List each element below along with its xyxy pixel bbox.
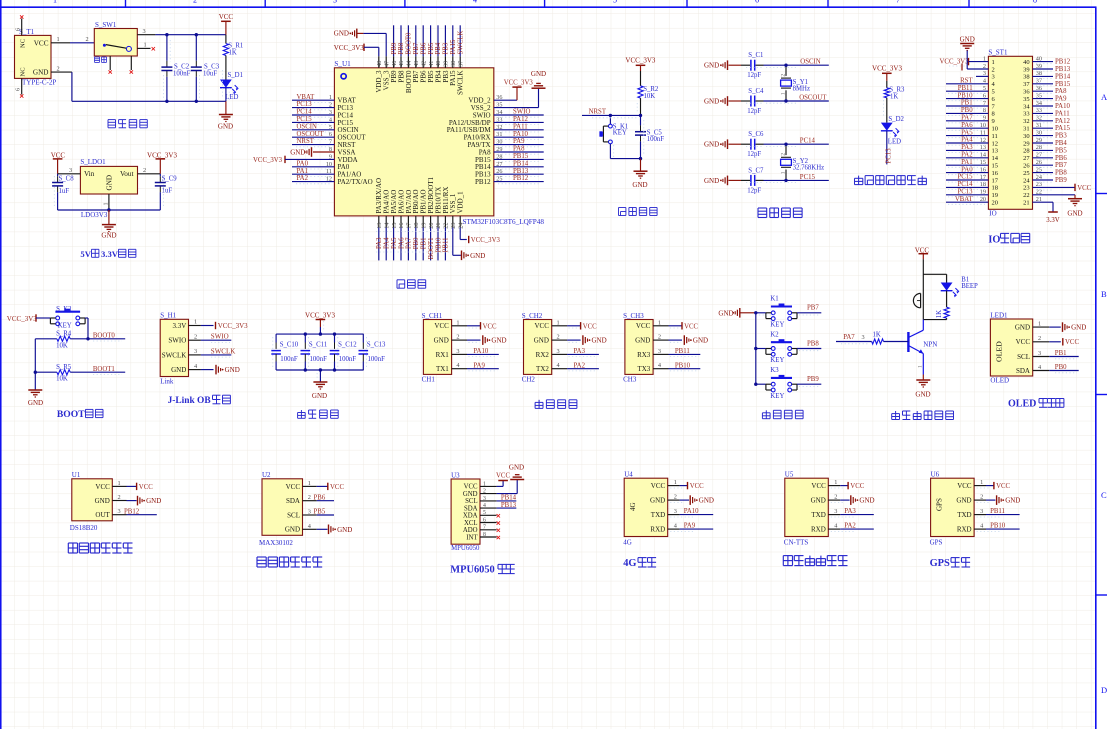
- svg-text:S_C6: S_C6: [748, 131, 764, 138]
- svg-text:2: 2: [1038, 335, 1041, 342]
- svg-text:K2: K2: [770, 331, 779, 338]
- svg-text:S_CH2: S_CH2: [522, 312, 543, 320]
- svg-text:1: 1: [194, 319, 197, 326]
- svg-text:S_C8: S_C8: [59, 175, 75, 182]
- svg-text:PA9: PA9: [513, 138, 525, 145]
- svg-text:12pF: 12pF: [747, 151, 761, 158]
- svg-text:46: 46: [391, 61, 398, 67]
- svg-text:8: 8: [1033, 0, 1037, 4]
- svg-text:VCC_3V3: VCC_3V3: [253, 157, 283, 164]
- svg-text:ADO: ADO: [463, 527, 478, 534]
- svg-text:1: 1: [456, 319, 459, 326]
- svg-text:GND: GND: [95, 497, 110, 505]
- svg-text:GND: GND: [704, 177, 719, 185]
- svg-text:2: 2: [781, 74, 787, 77]
- svg-text:1: 1: [834, 479, 837, 486]
- svg-text:5: 5: [483, 510, 486, 516]
- svg-text:26: 26: [1023, 163, 1030, 170]
- svg-text:2: 2: [557, 334, 560, 341]
- svg-text:6: 6: [755, 0, 759, 4]
- svg-text:2: 2: [834, 494, 837, 501]
- svg-text:S_CH1: S_CH1: [422, 312, 443, 320]
- svg-text:S_C2: S_C2: [174, 64, 190, 71]
- svg-text:PA11: PA11: [513, 123, 528, 130]
- svg-text:3: 3: [992, 74, 995, 81]
- svg-text:22: 22: [1023, 192, 1030, 199]
- svg-text:GND: GND: [146, 497, 161, 505]
- svg-text:11: 11: [992, 133, 998, 140]
- svg-text:TYPE-C-2P: TYPE-C-2P: [22, 78, 56, 86]
- svg-text:CN-TTS: CN-TTS: [784, 539, 809, 547]
- svg-text:S_CH3: S_CH3: [623, 312, 644, 320]
- svg-text:3: 3: [1038, 350, 1041, 357]
- svg-text:10K: 10K: [56, 342, 68, 349]
- svg-text:U3: U3: [451, 471, 460, 479]
- svg-text:2: 2: [992, 66, 995, 73]
- svg-text:39: 39: [443, 61, 450, 67]
- svg-text:A: A: [1101, 92, 1107, 102]
- svg-text:IO: IO: [988, 234, 1000, 245]
- svg-text:PC13: PC13: [297, 101, 313, 108]
- svg-text:PB1: PB1: [1055, 350, 1067, 357]
- svg-text:Vout: Vout: [120, 170, 133, 178]
- svg-text:3: 3: [69, 167, 72, 174]
- svg-text:13: 13: [992, 148, 999, 155]
- svg-text:PA7: PA7: [406, 237, 413, 249]
- svg-text:1: 1: [781, 92, 787, 95]
- svg-text:GND: GND: [33, 69, 49, 77]
- svg-text:PB4: PB4: [435, 42, 442, 54]
- svg-text:GND: GND: [225, 366, 240, 374]
- svg-text:PB8: PB8: [398, 42, 405, 54]
- svg-text:1: 1: [658, 319, 661, 326]
- svg-text:22: 22: [443, 223, 450, 229]
- svg-text:PA4: PA4: [384, 237, 391, 249]
- svg-text:PB12: PB12: [475, 178, 491, 186]
- svg-text:VBAT: VBAT: [297, 94, 316, 101]
- svg-text:MPU6050: MPU6050: [451, 545, 480, 552]
- svg-text:CH1: CH1: [422, 375, 436, 383]
- svg-text:VCC_3V3: VCC_3V3: [471, 237, 501, 244]
- svg-text:LED1: LED1: [990, 312, 1008, 320]
- svg-text:GND: GND: [650, 497, 665, 505]
- svg-text:100nF: 100nF: [310, 356, 328, 363]
- svg-text:S_R5: S_R5: [56, 364, 72, 371]
- svg-text:PA10: PA10: [513, 131, 528, 138]
- svg-text:32: 32: [1023, 118, 1030, 125]
- svg-text:TX2: TX2: [536, 365, 549, 373]
- svg-text:6: 6: [483, 517, 486, 523]
- svg-text:CH2: CH2: [522, 375, 536, 383]
- svg-text:1: 1: [980, 479, 983, 486]
- svg-text:PA8: PA8: [513, 146, 525, 153]
- svg-text:VCC_3V3: VCC_3V3: [625, 57, 655, 65]
- svg-text:6: 6: [15, 28, 21, 31]
- svg-text:GND: GND: [434, 337, 449, 345]
- svg-text:RX2: RX2: [536, 351, 550, 359]
- svg-text:3: 3: [194, 348, 197, 355]
- svg-text:IO: IO: [989, 210, 996, 218]
- svg-text:1: 1: [918, 365, 924, 368]
- svg-text:SWCLK: SWCLK: [457, 71, 465, 96]
- svg-text:37: 37: [1023, 81, 1030, 88]
- svg-text:PB0: PB0: [1055, 364, 1067, 371]
- svg-text:TX3: TX3: [637, 365, 650, 373]
- svg-text:PA9: PA9: [1055, 96, 1067, 103]
- svg-text:PB6: PB6: [314, 494, 326, 501]
- svg-text:S_C10: S_C10: [280, 341, 299, 348]
- svg-text:1K: 1K: [873, 332, 881, 339]
- svg-text:BOOT: BOOT: [57, 409, 85, 420]
- svg-text:S_K2: S_K2: [56, 306, 72, 313]
- svg-text:SWCLK: SWCLK: [457, 31, 464, 55]
- svg-text:GND: GND: [704, 62, 719, 70]
- svg-text:PB10: PB10: [990, 523, 1006, 530]
- svg-text:PB6: PB6: [420, 42, 427, 54]
- svg-text:NRST: NRST: [589, 109, 607, 116]
- svg-text:40: 40: [435, 61, 442, 67]
- svg-text:PB15: PB15: [513, 153, 529, 160]
- svg-text:VCC: VCC: [95, 483, 110, 491]
- svg-text:SWIO: SWIO: [513, 109, 530, 116]
- svg-text:19: 19: [992, 192, 999, 199]
- svg-text:RST: RST: [960, 78, 973, 85]
- svg-text:PB7: PB7: [807, 305, 819, 312]
- svg-text:2: 2: [456, 334, 459, 341]
- svg-text:PB11: PB11: [443, 238, 450, 253]
- svg-text:KEY: KEY: [770, 393, 784, 400]
- svg-text:2: 2: [86, 36, 89, 43]
- svg-text:25: 25: [1023, 170, 1030, 177]
- svg-text:17: 17: [992, 177, 999, 184]
- svg-text:33: 33: [1023, 111, 1030, 118]
- svg-text:PA9: PA9: [684, 523, 696, 530]
- svg-text:2: 2: [483, 489, 486, 495]
- svg-text:GND: GND: [1005, 497, 1020, 505]
- svg-text:38: 38: [1023, 74, 1030, 81]
- svg-text:BOOT0: BOOT0: [406, 32, 413, 55]
- svg-text:S_C13: S_C13: [367, 341, 386, 348]
- svg-text:RXD: RXD: [650, 526, 665, 534]
- svg-text:B: B: [1101, 289, 1107, 299]
- svg-text:GND: GND: [592, 337, 607, 345]
- svg-text:PB0: PB0: [413, 237, 420, 249]
- svg-text:PB3: PB3: [1055, 133, 1067, 140]
- svg-text:PB14: PB14: [513, 160, 529, 167]
- svg-text:1: 1: [144, 42, 147, 49]
- svg-text:PB8: PB8: [807, 340, 819, 347]
- svg-text:KEY: KEY: [613, 130, 627, 137]
- svg-text:K1: K1: [770, 296, 778, 303]
- svg-text:SWIO: SWIO: [168, 337, 186, 345]
- svg-text:STM32F103C8T6_LQFP48: STM32F103C8T6_LQFP48: [463, 218, 545, 226]
- svg-text:GPS: GPS: [936, 498, 944, 511]
- svg-text:VCC_3V3: VCC_3V3: [872, 64, 902, 72]
- svg-text:3.3V: 3.3V: [1046, 217, 1059, 224]
- svg-text:47: 47: [383, 61, 390, 67]
- svg-text:PB13: PB13: [1055, 66, 1071, 73]
- svg-text:Vin: Vin: [84, 170, 95, 178]
- svg-text:VCC: VCC: [1077, 185, 1091, 192]
- svg-text:VCC: VCC: [1016, 338, 1031, 346]
- svg-text:8: 8: [992, 111, 995, 118]
- svg-text:PA7: PA7: [843, 334, 855, 341]
- svg-text:GND: GND: [534, 337, 549, 345]
- svg-text:VCC: VCC: [139, 484, 153, 491]
- svg-text:BOOT1: BOOT1: [428, 238, 435, 260]
- svg-text:GND: GND: [915, 390, 930, 398]
- svg-text:7: 7: [896, 0, 900, 4]
- svg-text:1: 1: [674, 479, 677, 486]
- svg-text:KEY: KEY: [770, 322, 784, 329]
- svg-text:PB14: PB14: [1055, 73, 1071, 80]
- svg-text:14: 14: [383, 223, 390, 229]
- svg-text:VCC: VCC: [496, 473, 510, 480]
- svg-text:DS18B20: DS18B20: [70, 524, 98, 532]
- svg-text:PB10: PB10: [675, 362, 691, 369]
- svg-text:KEY: KEY: [770, 357, 784, 364]
- svg-text:OSCIN: OSCIN: [297, 123, 317, 130]
- svg-text:41: 41: [428, 61, 435, 67]
- svg-text:PA2: PA2: [574, 362, 586, 369]
- svg-text:S_U1: S_U1: [334, 60, 351, 68]
- svg-text:PA12: PA12: [513, 116, 528, 123]
- svg-text:SWCLK: SWCLK: [162, 351, 187, 359]
- svg-text:16: 16: [398, 223, 405, 229]
- svg-text:PB14: PB14: [501, 495, 517, 502]
- svg-text:GND: GND: [718, 309, 733, 317]
- svg-text:1: 1: [781, 171, 787, 174]
- svg-text:PB6: PB6: [1055, 155, 1067, 162]
- svg-text:VCC: VCC: [464, 484, 478, 491]
- svg-text:PA9: PA9: [473, 362, 485, 369]
- svg-text:PA2: PA2: [297, 175, 309, 182]
- svg-text:1: 1: [1038, 321, 1041, 328]
- svg-text:TX1: TX1: [436, 365, 449, 373]
- svg-text:MPU6050: MPU6050: [450, 565, 494, 576]
- svg-text:15: 15: [391, 223, 398, 229]
- svg-text:8MHz: 8MHz: [793, 85, 810, 92]
- svg-text:GND: GND: [312, 392, 327, 400]
- svg-text:15: 15: [992, 163, 999, 170]
- svg-text:PB12: PB12: [124, 508, 140, 515]
- svg-text:1: 1: [557, 319, 560, 326]
- svg-text:20: 20: [428, 223, 435, 229]
- svg-text:GND: GND: [1067, 210, 1082, 218]
- svg-text:OLED: OLED: [995, 341, 1004, 362]
- svg-text:GPS: GPS: [930, 558, 950, 569]
- svg-text:GND: GND: [470, 252, 485, 260]
- svg-text:1uF: 1uF: [59, 188, 70, 195]
- svg-text:PB8: PB8: [1055, 170, 1067, 177]
- svg-text:TXD: TXD: [811, 511, 825, 519]
- svg-text:35: 35: [1023, 96, 1030, 103]
- svg-text:S_ST1: S_ST1: [988, 49, 1008, 57]
- svg-text:29: 29: [1023, 140, 1030, 147]
- svg-text:VCC: VCC: [483, 323, 497, 330]
- svg-text:13: 13: [376, 223, 383, 229]
- svg-text:PA11: PA11: [1055, 110, 1070, 117]
- svg-text:GND: GND: [859, 497, 874, 505]
- svg-text:1K: 1K: [229, 50, 237, 57]
- svg-text:VCC: VCC: [534, 322, 549, 330]
- svg-text:S_SW1: S_SW1: [95, 21, 117, 29]
- svg-text:GND: GND: [509, 464, 524, 472]
- svg-text:23: 23: [450, 223, 457, 229]
- svg-text:2: 2: [980, 494, 983, 501]
- svg-text:4: 4: [473, 0, 477, 4]
- svg-text:GND: GND: [1015, 324, 1030, 332]
- svg-text:1: 1: [308, 480, 311, 487]
- svg-text:2: 2: [308, 494, 311, 501]
- svg-text:BOOT0: BOOT0: [93, 332, 116, 339]
- svg-text:U5: U5: [785, 471, 794, 479]
- svg-text:S_D1: S_D1: [228, 72, 244, 79]
- svg-text:PB11: PB11: [990, 508, 1005, 515]
- svg-text:3: 3: [658, 348, 661, 355]
- svg-text:GND: GND: [290, 149, 305, 157]
- svg-text:S_C11: S_C11: [309, 341, 327, 348]
- svg-text:1: 1: [104, 203, 110, 206]
- svg-text:XDA: XDA: [463, 513, 478, 520]
- svg-text:4: 4: [483, 503, 486, 509]
- svg-text:4G: 4G: [623, 558, 636, 569]
- svg-text:9: 9: [992, 118, 995, 125]
- svg-text:36: 36: [1023, 89, 1030, 96]
- svg-text:PB3: PB3: [443, 42, 450, 54]
- svg-text:PA3: PA3: [376, 237, 383, 249]
- svg-text:1: 1: [53, 0, 57, 4]
- svg-text:10K: 10K: [644, 93, 656, 100]
- svg-text:OSCIN: OSCIN: [800, 59, 820, 66]
- svg-text:GPS: GPS: [930, 539, 943, 547]
- svg-text:38: 38: [450, 61, 457, 67]
- svg-text:GND: GND: [28, 399, 43, 407]
- svg-text:VDD_1: VDD_1: [457, 191, 465, 214]
- svg-text:SDA: SDA: [286, 497, 300, 505]
- svg-text:3: 3: [557, 348, 560, 355]
- svg-text:GND: GND: [1071, 324, 1086, 332]
- svg-text:PA15: PA15: [450, 39, 457, 54]
- svg-text:PA12: PA12: [1055, 118, 1070, 125]
- svg-text:VCC: VCC: [850, 483, 864, 490]
- svg-text:GND: GND: [811, 497, 826, 505]
- svg-text:RX3: RX3: [637, 351, 651, 359]
- svg-text:PB9: PB9: [807, 376, 819, 383]
- svg-text:PB10: PB10: [435, 237, 442, 253]
- svg-text:3: 3: [674, 508, 677, 515]
- svg-text:PB5: PB5: [428, 42, 435, 54]
- svg-text:10: 10: [992, 126, 999, 133]
- svg-text:PB5: PB5: [1055, 147, 1067, 154]
- svg-text:GND: GND: [704, 141, 719, 149]
- svg-text:2: 2: [57, 65, 60, 72]
- svg-text:PC14: PC14: [297, 109, 313, 116]
- svg-text:SCL: SCL: [1017, 353, 1030, 361]
- svg-text:12: 12: [992, 140, 999, 147]
- svg-text:SCL: SCL: [287, 511, 300, 519]
- svg-text:12pF: 12pF: [747, 108, 761, 115]
- svg-text:VCC_3V3: VCC_3V3: [504, 80, 534, 87]
- svg-text:20: 20: [992, 200, 999, 207]
- svg-text:CH3: CH3: [623, 375, 637, 383]
- svg-text:3: 3: [980, 508, 983, 515]
- svg-text:18: 18: [413, 223, 420, 229]
- svg-text:PA10: PA10: [684, 508, 699, 515]
- svg-text:PC14: PC14: [800, 138, 816, 145]
- svg-text:PB11: PB11: [675, 348, 690, 355]
- svg-text:VCC_3V3: VCC_3V3: [940, 58, 970, 65]
- svg-text:2: 2: [658, 334, 661, 341]
- svg-text:Link: Link: [160, 377, 174, 385]
- svg-text:VCC: VCC: [811, 482, 826, 490]
- svg-text:TXD: TXD: [957, 511, 971, 519]
- svg-text:NPN: NPN: [923, 340, 937, 348]
- svg-text:LDO3V3: LDO3V3: [81, 211, 108, 219]
- svg-text:LED: LED: [225, 94, 238, 101]
- svg-text:PB12: PB12: [1055, 59, 1071, 66]
- svg-text:GND: GND: [171, 366, 186, 374]
- svg-text:VCC: VCC: [651, 482, 666, 490]
- svg-text:PB12: PB12: [513, 175, 529, 182]
- svg-text:BEEP: BEEP: [961, 283, 978, 290]
- svg-text:VCC: VCC: [957, 482, 972, 490]
- svg-text:5: 5: [992, 89, 995, 96]
- svg-text:100nF: 100nF: [368, 356, 386, 363]
- svg-text:S_C3: S_C3: [204, 64, 220, 71]
- svg-text:43: 43: [413, 61, 420, 67]
- svg-text:30: 30: [1023, 133, 1030, 140]
- svg-text:S_R4: S_R4: [56, 330, 72, 337]
- svg-text:18: 18: [992, 185, 999, 192]
- svg-text:5: 5: [613, 0, 617, 4]
- svg-text:GND: GND: [337, 526, 352, 534]
- svg-text:S_C1: S_C1: [748, 52, 763, 59]
- svg-text:PC15: PC15: [800, 174, 816, 181]
- svg-text:2: 2: [781, 153, 787, 156]
- svg-text:PB9: PB9: [1055, 177, 1067, 184]
- svg-text:37: 37: [457, 61, 464, 67]
- svg-text:12pF: 12pF: [747, 72, 761, 79]
- svg-text:PA5: PA5: [391, 237, 398, 249]
- svg-text:PA3: PA3: [844, 508, 856, 515]
- svg-text:SCL: SCL: [465, 498, 477, 505]
- svg-text:K3: K3: [770, 367, 779, 374]
- svg-text:GND: GND: [285, 526, 300, 534]
- svg-text:OUT: OUT: [95, 511, 110, 519]
- svg-text:4G: 4G: [623, 539, 632, 547]
- svg-text:3: 3: [862, 334, 865, 341]
- svg-text:KEY: KEY: [58, 323, 72, 330]
- svg-text:1: 1: [118, 480, 121, 487]
- svg-text:3: 3: [118, 508, 121, 515]
- svg-text:2: 2: [143, 167, 146, 174]
- svg-text:SDA: SDA: [1016, 367, 1030, 375]
- svg-text:3: 3: [333, 0, 337, 4]
- svg-text:OSCOUT: OSCOUT: [297, 131, 325, 138]
- svg-text:5V: 5V: [80, 249, 91, 259]
- svg-text:GND: GND: [699, 497, 714, 505]
- svg-text:VCC: VCC: [1065, 339, 1079, 346]
- svg-text:PC15: PC15: [297, 116, 313, 123]
- svg-text:8: 8: [483, 532, 486, 538]
- svg-text:40: 40: [1023, 59, 1030, 66]
- svg-text:GND: GND: [704, 98, 719, 106]
- svg-text:PB13: PB13: [501, 502, 517, 509]
- svg-text:1: 1: [57, 36, 60, 43]
- svg-text:39: 39: [1023, 66, 1030, 73]
- svg-text:VCC_3V3: VCC_3V3: [334, 44, 364, 52]
